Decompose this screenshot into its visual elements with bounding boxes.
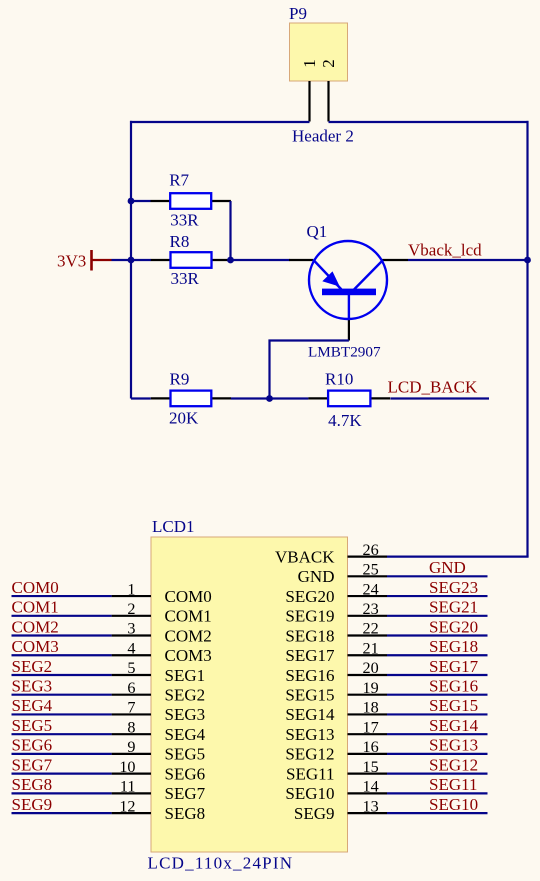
svg-text:SEG11: SEG11 <box>286 764 335 783</box>
svg-text:COM3: COM3 <box>165 646 212 665</box>
LCD1 pin 20 SEG16 <box>285 659 387 685</box>
LCD1 pin 23 SEG19 <box>285 600 387 626</box>
wire P9 pin1 to left rail <box>130 121 310 123</box>
LCD1 pin 24 SEG20 <box>285 580 387 606</box>
LCD1 pin 22 SEG18 <box>285 620 387 646</box>
LCD1 pin 10 SEG6 <box>112 758 206 784</box>
svg-text:GND: GND <box>429 558 466 577</box>
svg-text:SEG4: SEG4 <box>12 696 53 715</box>
svg-text:SEG7: SEG7 <box>165 784 206 803</box>
wire net GND pin 25 <box>387 558 488 577</box>
svg-text:SEG17: SEG17 <box>429 657 479 676</box>
svg-text:SEG6: SEG6 <box>12 736 53 755</box>
svg-text:LMBT2907: LMBT2907 <box>308 344 381 361</box>
svg-text:SEG16: SEG16 <box>285 666 334 685</box>
svg-text:24: 24 <box>363 580 379 598</box>
svg-text:SEG9: SEG9 <box>294 804 335 823</box>
junction collector-right rail <box>524 257 531 264</box>
svg-text:6: 6 <box>127 679 135 697</box>
svg-text:COM1: COM1 <box>12 598 59 617</box>
wire 3V3 to rail <box>112 259 132 261</box>
wire left rail vertical <box>130 121 132 399</box>
svg-text:SEG11: SEG11 <box>429 775 478 794</box>
svg-text:1: 1 <box>127 580 135 598</box>
wire R8 to Q1 emitter <box>231 259 290 261</box>
resistor R7 <box>151 193 231 209</box>
svg-text:SEG18: SEG18 <box>429 637 478 656</box>
svg-text:2: 2 <box>319 59 338 68</box>
svg-text:SEG21: SEG21 <box>429 598 478 617</box>
transistor Q1 <box>289 241 408 341</box>
LCD1 pin 18 SEG14 <box>285 699 387 725</box>
svg-text:LCD_110x_24PIN: LCD_110x_24PIN <box>148 854 293 873</box>
svg-text:SEG2: SEG2 <box>12 657 53 676</box>
resistor R8 <box>151 252 231 268</box>
svg-text:COM0: COM0 <box>12 578 59 597</box>
svg-text:13: 13 <box>363 797 379 815</box>
wire net SEG14 pin 17 <box>387 716 488 735</box>
svg-text:SEG3: SEG3 <box>165 705 206 724</box>
svg-text:COM2: COM2 <box>12 617 59 636</box>
LCD1 pin 12 SEG8 <box>112 797 206 823</box>
LCD1 pin 19 SEG15 <box>285 679 387 705</box>
wire net SEG6 pin 9 <box>12 736 112 755</box>
wire LCD_BACK <box>390 397 489 399</box>
svg-text:SEG2: SEG2 <box>165 686 206 705</box>
wire net SEG9 pin 12 <box>12 795 112 814</box>
svg-text:3V3: 3V3 <box>57 252 86 271</box>
svg-text:19: 19 <box>363 679 379 697</box>
svg-text:SEG14: SEG14 <box>285 705 335 724</box>
svg-text:SEG23: SEG23 <box>429 578 478 597</box>
svg-text:SEG13: SEG13 <box>429 736 478 755</box>
svg-text:SEG3: SEG3 <box>12 677 53 696</box>
svg-text:LCD1: LCD1 <box>152 517 195 536</box>
LCD1 pin 25 GND <box>298 561 387 587</box>
svg-text:25: 25 <box>363 561 379 579</box>
wire net SEG2 pin 5 <box>12 657 112 676</box>
svg-text:COM2: COM2 <box>165 626 212 645</box>
LCD1 pin 26 VBACK <box>275 541 387 567</box>
svg-text:3: 3 <box>127 620 135 638</box>
LCD1 pin 11 SEG7 <box>112 778 206 804</box>
svg-text:VBACK: VBACK <box>275 547 335 566</box>
LCD1 pin 4 COM3 <box>112 639 212 665</box>
wire net SEG7 pin 10 <box>12 755 112 774</box>
svg-text:SEG10: SEG10 <box>285 784 334 803</box>
LCD1 pin 13 SEG9 <box>294 797 387 823</box>
svg-text:15: 15 <box>363 758 379 776</box>
wire rail to R7 <box>131 200 151 202</box>
LCD1 pin 7 SEG3 <box>112 699 206 725</box>
svg-text:7: 7 <box>127 699 135 717</box>
wire pin 26 to right rail <box>387 555 529 557</box>
P9 pin 1 <box>300 59 319 121</box>
svg-text:22: 22 <box>363 620 379 638</box>
svg-text:SEG7: SEG7 <box>12 755 53 774</box>
svg-text:5: 5 <box>127 659 135 677</box>
junction rail-R7 <box>128 198 135 205</box>
svg-text:SEG18: SEG18 <box>285 626 334 645</box>
wire net SEG16 pin 19 <box>387 677 488 696</box>
wire Q1 base to R9-R10 node <box>270 341 349 399</box>
svg-text:R7: R7 <box>169 171 189 190</box>
junction base-R9-R10 <box>266 395 273 402</box>
wire net SEG8 pin 11 <box>12 775 112 794</box>
svg-text:9: 9 <box>127 738 135 756</box>
wire net SEG5 pin 8 <box>12 716 112 735</box>
svg-text:16: 16 <box>363 738 379 756</box>
LCD1 pin 9 SEG5 <box>112 738 206 764</box>
svg-text:SEG20: SEG20 <box>429 617 478 636</box>
LCD1 pin 21 SEG17 <box>285 639 387 665</box>
svg-text:2: 2 <box>127 600 135 618</box>
svg-text:26: 26 <box>363 541 379 559</box>
svg-text:33R: 33R <box>171 269 200 288</box>
connector P9 body <box>290 23 348 81</box>
power port 3V3 <box>92 250 112 271</box>
svg-text:21: 21 <box>363 639 379 657</box>
svg-text:23: 23 <box>363 600 379 618</box>
resistor R10 <box>308 391 390 407</box>
wire rail to R9 <box>131 397 151 399</box>
svg-text:SEG12: SEG12 <box>429 755 478 774</box>
svg-text:14: 14 <box>363 778 379 796</box>
svg-text:8: 8 <box>127 718 135 736</box>
wire net SEG4 pin 7 <box>12 696 112 715</box>
wire base node to R10 <box>270 397 309 399</box>
resistor R9 <box>151 391 231 407</box>
svg-text:Q1: Q1 <box>307 222 328 241</box>
LCD1 pin 1 COM0 <box>112 580 212 606</box>
svg-text:SEG19: SEG19 <box>285 607 334 626</box>
LCD1 pin 6 SEG2 <box>112 679 206 705</box>
svg-text:Header 2: Header 2 <box>292 127 354 146</box>
svg-text:10: 10 <box>119 758 135 776</box>
svg-text:33R: 33R <box>170 211 199 230</box>
wire R7 to R8 vertical <box>229 201 231 260</box>
LCD1 pin 5 SEG1 <box>112 659 206 685</box>
svg-text:4.7K: 4.7K <box>328 411 362 430</box>
svg-text:SEG12: SEG12 <box>285 745 334 764</box>
svg-text:20: 20 <box>363 659 379 677</box>
svg-text:COM3: COM3 <box>12 637 59 656</box>
svg-text:SEG8: SEG8 <box>165 804 206 823</box>
wire R9 to base node <box>231 397 270 399</box>
svg-text:P9: P9 <box>289 4 307 23</box>
svg-text:COM1: COM1 <box>165 607 212 626</box>
LCD1 pin 8 SEG4 <box>112 718 206 744</box>
svg-text:SEG17: SEG17 <box>285 646 335 665</box>
LCD1 pin 15 SEG11 <box>286 758 387 784</box>
svg-text:11: 11 <box>120 778 136 796</box>
wire net SEG18 pin 21 <box>387 637 488 656</box>
svg-text:SEG4: SEG4 <box>165 725 206 744</box>
wire net SEG11 pin 14 <box>387 775 488 794</box>
LCD1 pin 16 SEG12 <box>285 738 387 764</box>
IC LCD1 body <box>151 537 348 852</box>
wire net SEG15 pin 18 <box>387 696 488 715</box>
wire net SEG17 pin 20 <box>387 657 488 676</box>
P9 pin 2 <box>319 59 338 121</box>
svg-text:SEG15: SEG15 <box>285 686 334 705</box>
wire net SEG23 pin 24 <box>387 578 488 597</box>
LCD1 pin 3 COM2 <box>112 620 212 646</box>
svg-text:17: 17 <box>363 718 379 736</box>
svg-text:SEG20: SEG20 <box>285 587 334 606</box>
wire net SEG12 pin 15 <box>387 755 488 774</box>
svg-text:R10: R10 <box>325 370 353 389</box>
wire net COM0 pin 1 <box>12 578 112 597</box>
LCD1 pin 14 SEG10 <box>285 778 387 804</box>
svg-text:R8: R8 <box>170 232 190 251</box>
wire net COM3 pin 4 <box>12 637 112 656</box>
svg-text:SEG10: SEG10 <box>429 795 478 814</box>
wire net SEG3 pin 6 <box>12 677 112 696</box>
svg-text:GND: GND <box>298 567 335 586</box>
LCD1 pin 2 COM1 <box>112 600 212 626</box>
svg-text:R9: R9 <box>170 370 190 389</box>
svg-text:1: 1 <box>300 59 319 68</box>
wire P9 pin2 to right rail <box>329 121 529 123</box>
svg-text:COM0: COM0 <box>165 587 212 606</box>
svg-text:SEG5: SEG5 <box>12 716 53 735</box>
svg-text:4: 4 <box>127 639 135 657</box>
svg-text:LCD_BACK: LCD_BACK <box>388 378 478 397</box>
svg-text:SEG16: SEG16 <box>429 677 478 696</box>
wire net SEG21 pin 23 <box>387 598 488 617</box>
wire rail to R8 <box>131 259 151 261</box>
wire net SEG20 pin 22 <box>387 617 488 636</box>
svg-text:12: 12 <box>119 797 135 815</box>
svg-text:20K: 20K <box>169 409 199 428</box>
wire net SEG13 pin 16 <box>387 736 488 755</box>
wire Q1 collector to right rail <box>408 259 528 261</box>
svg-text:SEG8: SEG8 <box>12 775 53 794</box>
svg-text:SEG13: SEG13 <box>285 725 334 744</box>
svg-text:18: 18 <box>363 699 379 717</box>
wire net COM1 pin 2 <box>12 598 112 617</box>
svg-text:SEG14: SEG14 <box>429 716 479 735</box>
wire net COM2 pin 3 <box>12 617 112 636</box>
wire net SEG10 pin 13 <box>387 795 488 814</box>
LCD1 pin 17 SEG13 <box>285 718 387 744</box>
svg-text:SEG1: SEG1 <box>165 666 206 685</box>
wire right rail vertical <box>526 121 528 557</box>
svg-text:SEG9: SEG9 <box>12 795 53 814</box>
junction R7-R8 output <box>227 257 234 264</box>
svg-text:SEG6: SEG6 <box>165 764 206 783</box>
svg-text:Vback_lcd: Vback_lcd <box>408 241 482 260</box>
svg-text:SEG5: SEG5 <box>165 745 206 764</box>
junction rail-3V3-R8 <box>128 257 135 264</box>
svg-text:SEG15: SEG15 <box>429 696 478 715</box>
